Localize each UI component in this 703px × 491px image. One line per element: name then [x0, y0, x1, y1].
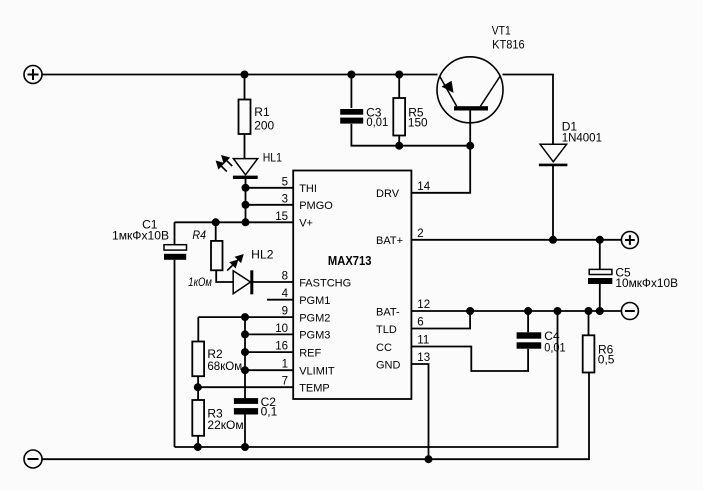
node C2 bottom [241, 443, 249, 451]
node C3 top [347, 71, 355, 79]
svg-text:MAX713: MAX713 [328, 253, 372, 268]
U1 pin names right (DRV BAT+ BAT- TLD CC GND) [376, 188, 403, 371]
node VT1 base line [466, 142, 474, 150]
LED HL1 [216, 156, 257, 223]
capacitor C3 [340, 75, 363, 124]
node rail-BAT- [554, 307, 562, 315]
node R3 bottom [194, 443, 202, 451]
wire PMGO [246, 204, 294, 206]
svg-text:16: 16 [275, 341, 288, 353]
svg-text:2: 2 [417, 228, 423, 240]
svg-text:1мкФх10В: 1мкФх10В [112, 229, 169, 243]
wire PGM3 [245, 333, 293, 335]
terminal - output [621, 303, 638, 320]
IC U1 MAX713 [293, 171, 411, 400]
node HL1-PMGO [242, 201, 250, 209]
node PGM3 [241, 330, 249, 338]
node REF [241, 348, 249, 356]
svg-text:PGM2: PGM2 [299, 312, 330, 324]
node V+ [242, 218, 250, 226]
svg-text:10мкФх10В: 10мкФх10В [615, 276, 678, 290]
svg-text:4: 4 [282, 288, 289, 300]
capacitor C5 [588, 240, 612, 311]
wire REF [245, 351, 293, 353]
capacitor C1 [164, 222, 187, 259]
svg-text:DRV: DRV [376, 188, 400, 200]
wire VT1 base to DRV pin 14 [411, 111, 470, 193]
wire V+ [175, 221, 294, 223]
node TLD-BAT- [466, 307, 474, 315]
wire PGM2 to R2 [197, 317, 199, 341]
wire GND [411, 364, 428, 459]
svg-text:0,5: 0,5 [598, 353, 615, 367]
analog ground rail [175, 311, 558, 447]
U1 pin numbers right (14 2 12 6 11 13) [417, 181, 430, 364]
wire D1 to BAT+ [552, 165, 554, 240]
svg-text:9: 9 [282, 306, 288, 318]
svg-text:150: 150 [408, 115, 428, 129]
node HL1-THI [242, 184, 250, 192]
resistor R1 [239, 75, 251, 159]
terminal + output [621, 232, 638, 249]
wire top rail left [42, 74, 438, 76]
node R5 top [395, 71, 403, 79]
svg-text:V+: V+ [299, 218, 313, 230]
svg-text:0,01: 0,01 [366, 115, 388, 129]
wire PGM2 [198, 316, 293, 318]
resistor R3 [192, 400, 204, 447]
resistor R5 [393, 75, 405, 146]
wire C1 to ground rail [174, 260, 176, 447]
svg-text:5: 5 [282, 176, 288, 188]
svg-text:200: 200 [254, 119, 274, 133]
transistor VT1 KT816 [437, 57, 503, 123]
svg-text:0,01: 0,01 [544, 340, 566, 354]
svg-text:14: 14 [417, 181, 430, 193]
node GND bottom [425, 455, 433, 463]
svg-text:TLD: TLD [376, 324, 397, 336]
svg-text:3: 3 [282, 193, 288, 205]
wire CC to C4 [411, 347, 528, 372]
wire top rail right [503, 75, 554, 145]
bottom rail [42, 373, 589, 460]
capacitor C2 [234, 398, 258, 447]
wire TLD [411, 311, 470, 329]
svg-text:6: 6 [417, 317, 423, 329]
svg-text:1N4001: 1N4001 [562, 131, 603, 145]
wire PGM1 [267, 299, 293, 301]
node R5 bottom [395, 142, 403, 150]
node C4-BAT- [524, 307, 532, 315]
svg-text:HL2: HL2 [251, 247, 274, 261]
resistor R2 [192, 342, 204, 401]
wire C3 bottom to VT1 base node [351, 124, 470, 146]
svg-text:68кОм: 68кОм [207, 359, 242, 373]
svg-text:11: 11 [417, 335, 429, 347]
svg-text:THI: THI [299, 183, 317, 195]
svg-text:CC: CC [376, 342, 392, 354]
svg-text:VLIMIT: VLIMIT [299, 365, 335, 377]
svg-text:1: 1 [282, 359, 288, 371]
diode D1 [539, 144, 568, 165]
resistor R6 [583, 311, 595, 373]
node R6-BAT- [585, 307, 593, 315]
svg-text:15: 15 [275, 211, 288, 223]
node R1 top [241, 71, 249, 79]
svg-text:22кОм: 22кОм [207, 418, 243, 432]
U1 pin names left (THI PMGO V+ FASTCHG PGM1 PGM2 PGM3 REF VLIMIT TEMP) [299, 183, 351, 395]
svg-text:REF: REF [299, 347, 321, 359]
svg-text:GND: GND [376, 359, 401, 371]
svg-text:R1: R1 [254, 105, 270, 119]
wire BAT- [411, 310, 621, 312]
wire BAT+ [411, 239, 621, 241]
svg-text:BAT-: BAT- [376, 306, 400, 318]
node PGM2 [241, 313, 249, 321]
LED HL2 [227, 255, 293, 294]
svg-text:12: 12 [417, 299, 430, 311]
svg-text:13: 13 [417, 352, 430, 364]
U1 pin numbers left (5 3 15 8 4 9 10 16 1 7) [275, 176, 288, 387]
svg-text:7: 7 [282, 376, 288, 388]
svg-text:VT1: VT1 [492, 23, 511, 37]
svg-text:10: 10 [275, 323, 288, 335]
wire THI [246, 187, 294, 189]
svg-text:HL1: HL1 [263, 150, 282, 164]
svg-text:BAT+: BAT+ [376, 235, 403, 247]
svg-text:FASTCHG: FASTCHG [299, 277, 351, 289]
svg-text:PMGO: PMGO [299, 200, 333, 212]
svg-text:PGM1: PGM1 [299, 295, 330, 307]
node C5-BAT- [596, 307, 604, 315]
svg-text:PGM3: PGM3 [299, 330, 330, 342]
wire VLIMIT [245, 369, 293, 371]
svg-text:1кОм: 1кОм [188, 275, 212, 289]
terminal + input [24, 66, 42, 84]
svg-text:KT816: KT816 [492, 38, 525, 52]
svg-text:0,1: 0,1 [261, 405, 278, 419]
resistor R4 [211, 222, 233, 282]
svg-text:TEMP: TEMP [299, 383, 330, 395]
node C5-BAT+ [596, 236, 604, 244]
node R4 top [212, 218, 220, 226]
capacitor C4 [517, 311, 542, 349]
terminal - input [24, 450, 42, 468]
svg-text:8: 8 [282, 271, 288, 283]
wire TEMP [198, 386, 293, 388]
node TEMP-R2R3 [194, 383, 202, 391]
node VLIMIT [241, 366, 249, 374]
node D1-BAT+ [549, 236, 557, 244]
svg-text:R4: R4 [192, 228, 206, 242]
wire PGM-chain vertical [244, 317, 246, 398]
